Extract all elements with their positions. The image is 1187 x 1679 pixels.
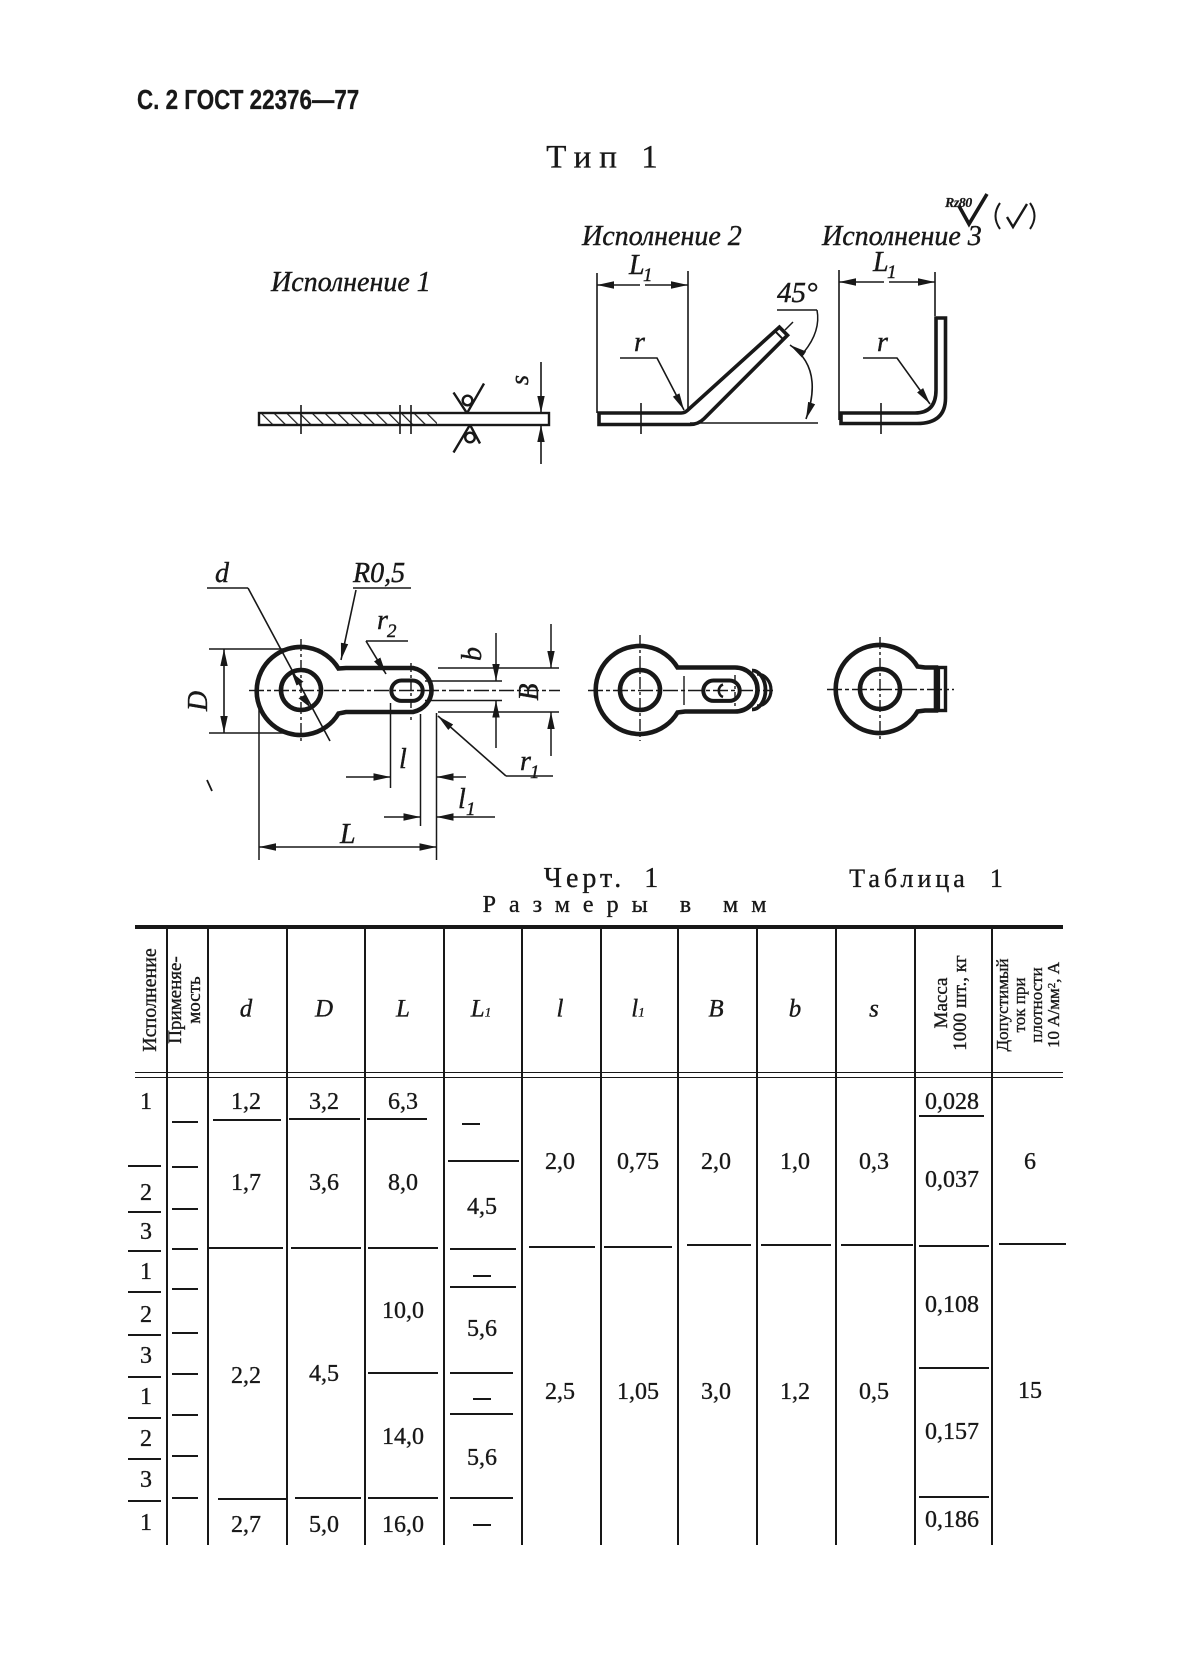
45° leader and arc (785, 322, 793, 330)
column header: Масса 1000 шт., кг (932, 955, 970, 1051)
main lug outline (чертёж) (257, 647, 432, 735)
caption Черт. 1 (544, 865, 662, 893)
dimension s (540, 362, 542, 413)
применяемость dashes (172, 1121, 198, 1123)
column header: Исполнение (140, 948, 160, 1052)
вид исполнение 2: lug view (596, 646, 758, 734)
column ток values (1024, 1150, 1036, 1174)
svg-text:Исполнение 2: Исполнение 2 (581, 221, 742, 252)
таблица 1: top border (135, 925, 1063, 929)
caption Таблица 1 (849, 866, 1007, 892)
column B values (701, 1150, 731, 1174)
column l values (545, 1150, 575, 1174)
dimension l1 (384, 816, 421, 818)
dimension B (438, 667, 559, 669)
исполнение row separator ticks (128, 1165, 161, 1167)
column header: Применяемость (166, 956, 204, 1044)
svg-text:l: l (458, 784, 466, 815)
svg-text:Исполнение 1: Исполнение 1 (270, 267, 431, 298)
svg-text:Исполнение 3: Исполнение 3 (821, 221, 982, 252)
таблица 1: vertical rules (166, 929, 168, 1545)
main lug hole d (281, 670, 321, 710)
svg-text:Rz80: Rz80 (944, 196, 972, 211)
column L1 values (462, 1123, 480, 1125)
вид исполнение 3: lug view (836, 645, 936, 733)
column s values (859, 1150, 889, 1174)
dimension D (209, 648, 295, 650)
исполнение column numbers (140, 1090, 152, 1114)
thin baseline extension (690, 422, 818, 424)
title: Тип 1 (546, 142, 665, 175)
svg-text:L: L (339, 819, 356, 850)
svg-text:1: 1 (887, 262, 897, 283)
svg-text:B: B (514, 683, 545, 700)
(√) mark (996, 203, 1001, 229)
roughness symbol below bar (465, 433, 475, 443)
hatching of bar section (260, 414, 437, 424)
svg-text:r: r (877, 327, 888, 358)
svg-text:45°: 45° (777, 277, 818, 309)
dimension l (390, 703, 392, 788)
исполнение 2: dimension L1 (596, 273, 598, 413)
column масса values (925, 1090, 979, 1114)
svg-text:1: 1 (466, 799, 476, 820)
column b values (780, 1150, 810, 1174)
svg-text:2: 2 (387, 621, 397, 642)
stray scan mark (207, 780, 212, 791)
caption Размеры в мм (483, 893, 780, 917)
bar centerline ticks (300, 405, 302, 434)
svg-text:s: s (505, 375, 534, 385)
svg-text:d: d (215, 558, 230, 589)
main lug centerlines (249, 690, 560, 692)
column l1 values (617, 1150, 659, 1174)
column header: Допустимый ток (994, 958, 1062, 1051)
исполнение 2: bent strip 45° (599, 327, 788, 424)
svg-text:r: r (634, 327, 645, 358)
таблица 1: header bottom double rule (135, 1072, 1063, 1074)
svg-text:1: 1 (530, 762, 540, 783)
dimension L (258, 703, 260, 860)
исполнение 1: flat bar side view (259, 413, 549, 425)
svg-text:l: l (399, 744, 407, 775)
roughness symbol above bar (463, 396, 473, 406)
исполнение 3: bent strip 90° (841, 318, 946, 424)
main lug slot (391, 681, 422, 701)
column L values (388, 1090, 418, 1114)
column d values (231, 1090, 261, 1114)
dimension b (425, 680, 502, 682)
svg-text:1: 1 (643, 265, 653, 286)
column headers: letter symbols (240, 997, 253, 1022)
svg-text:R0,5: R0,5 (352, 558, 405, 589)
page header: С. 2 ГОСТ 22376—77 (137, 86, 359, 114)
column D values (309, 1090, 339, 1114)
исполнение 3: dimension L1 (838, 270, 840, 420)
svg-text:D: D (183, 691, 214, 712)
svg-text:b: b (457, 647, 488, 661)
